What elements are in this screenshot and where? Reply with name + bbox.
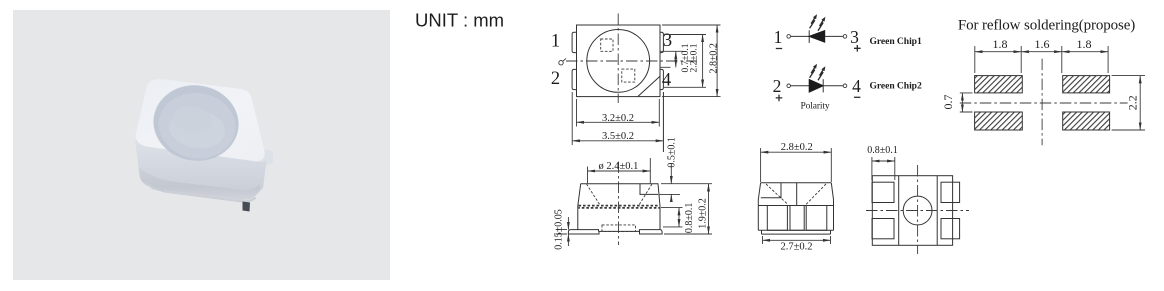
svg-text:1.6: 1.6 <box>1035 37 1050 51</box>
svg-text:1.9±0.2: 1.9±0.2 <box>697 198 708 229</box>
dim 0.7 arrows <box>675 51 677 67</box>
svg-text:2.8±0.2: 2.8±0.2 <box>708 43 719 74</box>
svg-text:3: 3 <box>850 27 859 47</box>
svg-text:0.7: 0.7 <box>941 95 955 110</box>
dim 2.2 line <box>702 35 704 88</box>
side view outline <box>578 184 660 230</box>
dim 2.4 witness lines <box>588 158 651 183</box>
reflector dashed left <box>587 184 601 205</box>
dim 0.5 arrows <box>670 164 672 184</box>
svg-text:0.5±0.1: 0.5±0.1 <box>667 137 678 168</box>
svg-text:2.2: 2.2 <box>1126 95 1140 110</box>
dim 2.8 witness lines <box>662 25 721 97</box>
svg-text:1: 1 <box>774 27 783 47</box>
dim 3.5 line <box>572 140 663 142</box>
dim 0.7 arrows <box>961 93 963 112</box>
LED D1 cathode bar <box>808 30 810 43</box>
center circle <box>903 196 932 225</box>
plus sign pin2 <box>776 95 783 102</box>
dim 2.4 line <box>588 170 651 172</box>
LED D2 cathode bar <box>822 79 824 92</box>
chip pad dashed square 2 <box>622 69 635 82</box>
inner lead edge left <box>898 176 900 246</box>
dim 2.7 witness lines <box>763 236 831 244</box>
dim 2.8 witness lines <box>761 148 832 182</box>
pad top-right <box>1063 76 1110 93</box>
emission arrows D1 <box>810 14 817 28</box>
reflector dashed left <box>766 184 788 205</box>
plus sign pin3 <box>854 45 861 52</box>
top right step <box>640 184 658 195</box>
dim 0.5 witness <box>659 193 680 195</box>
LED D1 triangle <box>809 31 825 43</box>
pad top-left <box>975 76 1023 93</box>
pin1 tab <box>572 32 576 52</box>
vertical centerline <box>1041 59 1043 146</box>
front view outline <box>758 183 833 231</box>
right side tabs <box>257 148 274 166</box>
wire pin2 to D2 <box>791 85 810 87</box>
svg-text:2: 2 <box>773 76 782 96</box>
dim 3.5 witness lines <box>572 92 663 152</box>
dim 2.2 witness lines <box>1112 76 1145 130</box>
SMD LED photo <box>135 79 274 211</box>
base bottom band <box>139 167 260 200</box>
right lead foot <box>640 230 663 234</box>
zipper band bottom <box>579 207 660 209</box>
pad bottom-right <box>1063 112 1110 130</box>
svg-text:4: 4 <box>852 76 861 96</box>
svg-text:0.15±0.05: 0.15±0.05 <box>554 209 565 250</box>
pad bottom-left <box>872 219 894 239</box>
svg-text:3: 3 <box>663 31 672 51</box>
reflector dashed right <box>639 184 652 205</box>
dim 0.8 line <box>872 160 895 162</box>
wire pin1 to D1 <box>791 35 810 37</box>
dim 2.8 line <box>761 151 832 153</box>
dim 2.8 line <box>716 25 718 97</box>
lead center <box>790 206 804 231</box>
terminal pin3 <box>843 35 847 39</box>
dim 0.8 witness lines <box>872 157 895 181</box>
minus sign pin1 <box>776 48 782 50</box>
lens cup <box>149 80 243 166</box>
horizontal centerline <box>960 102 1128 104</box>
dim 3.2 witness lines <box>577 99 660 127</box>
left lead foot <box>568 230 599 234</box>
center vertical line <box>796 183 798 206</box>
dark lead notch <box>243 202 251 212</box>
bottom center line <box>599 230 640 232</box>
top-left inner rect <box>761 183 781 198</box>
bottom view body outline <box>872 176 952 246</box>
top view body outline <box>577 25 661 97</box>
bottom strip <box>758 230 833 234</box>
pad bottom-right <box>941 219 960 239</box>
dim 1.6 line <box>1021 51 1062 53</box>
svg-text:2.7±0.2: 2.7±0.2 <box>780 242 812 253</box>
emission arrows D2 <box>810 64 817 78</box>
svg-text:Polarity: Polarity <box>801 101 830 111</box>
svg-text:1: 1 <box>551 32 560 52</box>
dim 0.15 arrows <box>567 217 569 230</box>
horizontal centerline <box>866 210 969 212</box>
terminal pin4 <box>843 84 847 88</box>
body lower/front faces <box>135 140 267 200</box>
dim 0.7 witness line <box>660 51 684 67</box>
top dim witness lines <box>975 46 1108 73</box>
svg-text:0.8±0.1: 0.8±0.1 <box>684 203 695 234</box>
chip pad dashed square 1 <box>601 39 613 51</box>
pad bottom-left <box>975 112 1023 130</box>
dim 0.8 witness lines <box>661 208 683 227</box>
svg-text:3.2±0.2: 3.2±0.2 <box>602 113 634 124</box>
terminal pin2 <box>787 84 791 88</box>
svg-text:3.5±0.2: 3.5±0.2 <box>602 131 634 142</box>
photo background panel <box>13 10 390 280</box>
left foot bump <box>150 182 164 192</box>
dim 1.8 line right <box>1062 51 1108 53</box>
svg-text:0.8±0.1: 0.8±0.1 <box>867 145 898 156</box>
svg-text:Green Chip2: Green Chip2 <box>870 80 922 91</box>
svg-text:1.8: 1.8 <box>1077 37 1092 51</box>
horizontal centerline <box>566 60 697 62</box>
dim 0.15 witness lines <box>556 230 567 234</box>
svg-text:1.8: 1.8 <box>993 37 1008 51</box>
dim 1.8 line left <box>975 51 1021 53</box>
pin2 tab <box>572 69 576 89</box>
reflector dashed right <box>806 184 826 205</box>
dim 0.8 line <box>678 208 680 227</box>
svg-text:2.2±0.1: 2.2±0.1 <box>689 43 699 72</box>
svg-text:Green Chip1: Green Chip1 <box>870 36 922 47</box>
dim 0.7 witness lines <box>960 93 973 112</box>
cathode mark symbol <box>559 61 563 65</box>
svg-text:2.8±0.2: 2.8±0.2 <box>781 142 813 153</box>
bottom contact shadow <box>142 179 256 201</box>
vertical centerline <box>618 162 620 246</box>
pad top-right <box>941 182 960 202</box>
pin4 chamfer diagonal <box>638 76 660 96</box>
minus sign pin4 <box>854 96 860 98</box>
svg-text:2: 2 <box>551 69 560 89</box>
vertical centerline <box>617 14 619 104</box>
svg-text:For reflow soldering(propose): For reflow soldering(propose) <box>958 18 1135 34</box>
lead left <box>767 206 787 231</box>
dim 1.9 witness lines <box>661 184 712 234</box>
inner lead edge right <box>936 176 938 246</box>
hidden center pad dashed <box>602 225 636 232</box>
pin4 tab <box>660 69 663 89</box>
svg-text:ø 2.4±0.1: ø 2.4±0.1 <box>599 161 639 172</box>
dim 2.2 witness lines <box>664 35 706 88</box>
cap/base boundary <box>758 205 833 207</box>
dim 3.2 line <box>577 121 660 123</box>
dim 2.2 line <box>1139 76 1141 130</box>
svg-text:UNIT : mm: UNIT : mm <box>415 10 504 31</box>
LED D2 triangle <box>809 80 823 93</box>
zipper band top <box>579 205 660 207</box>
dim 2.7 line <box>763 239 831 241</box>
vertical centerline <box>917 165 919 254</box>
lead right <box>806 206 827 231</box>
top face <box>136 79 265 161</box>
dim 0.5 line upper <box>662 92 664 152</box>
lens circle <box>587 30 650 93</box>
pad top-left <box>872 182 894 202</box>
pin3 tab <box>660 32 663 52</box>
wire D2 to pin4 <box>823 85 843 87</box>
terminal pin1 <box>787 35 791 39</box>
dim 1.9 line <box>708 184 710 234</box>
wire D1 to pin3 <box>825 35 844 37</box>
